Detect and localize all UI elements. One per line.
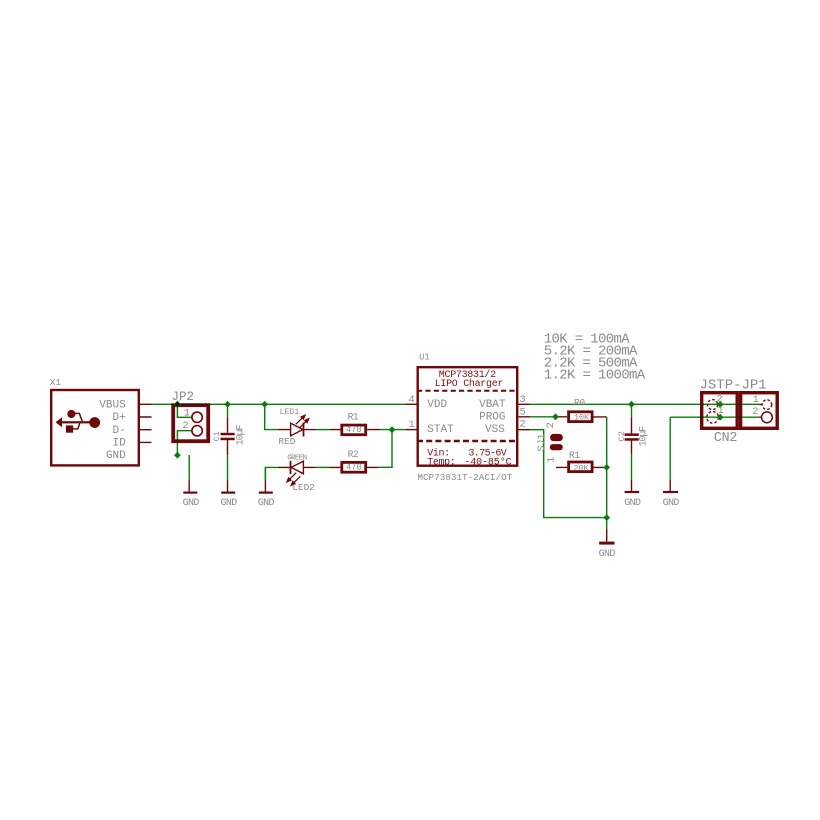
svg-text:PROG: PROG bbox=[479, 412, 505, 424]
svg-text:1: 1 bbox=[184, 407, 190, 419]
CN2 left pin number 2 bbox=[717, 394, 723, 406]
LED2 symbol bbox=[287, 461, 304, 486]
resistor R1 box bbox=[342, 425, 366, 435]
wire JP2 pin1 bbox=[177, 404, 191, 417]
junction C1 bbox=[224, 401, 231, 408]
value 10uF C1 rotated bbox=[235, 424, 246, 445]
label R0 bbox=[574, 398, 585, 409]
svg-text:4: 4 bbox=[409, 394, 415, 406]
svg-text:Temp:: Temp: bbox=[427, 457, 455, 468]
ground bar A bbox=[183, 492, 197, 494]
pins C2 bbox=[631, 417, 633, 491]
label LED1 bbox=[280, 408, 300, 417]
svg-text:3: 3 bbox=[520, 394, 526, 406]
svg-text:1: 1 bbox=[545, 457, 557, 463]
header JP2 box bbox=[173, 405, 208, 441]
label GND BAT- bbox=[663, 498, 680, 509]
svg-text:R1: R1 bbox=[569, 450, 580, 461]
SJ1 pin number 2 rotated bbox=[545, 422, 557, 428]
pin U1 VDD bbox=[405, 403, 417, 405]
JP2 pin circle 1 bbox=[192, 412, 202, 422]
svg-text:LED2: LED2 bbox=[292, 482, 315, 493]
usb symbol bbox=[56, 410, 101, 433]
svg-text:VDD: VDD bbox=[427, 399, 447, 411]
svg-text:RED: RED bbox=[279, 436, 296, 447]
svg-text:GND: GND bbox=[183, 498, 200, 509]
resistor R2 box bbox=[342, 462, 366, 472]
label RED bbox=[279, 436, 296, 447]
svg-text:1: 1 bbox=[409, 419, 415, 431]
label C1 rotated bbox=[212, 431, 222, 441]
ground bar C bbox=[259, 492, 273, 494]
svg-text:2: 2 bbox=[752, 406, 758, 418]
pins R0 bbox=[556, 416, 607, 418]
pin number 1 STAT bbox=[409, 419, 415, 431]
CN2 left pin number 1 bbox=[718, 405, 724, 417]
wire VSS run to GND node bbox=[530, 430, 607, 518]
junction CN2 top bbox=[717, 401, 724, 408]
pins R1 bbox=[330, 429, 380, 431]
capacitor C1 plates bbox=[221, 433, 235, 440]
pins R1 prog bbox=[556, 466, 607, 468]
CN2 pad circle right bottom bbox=[762, 412, 773, 423]
value 10uF C2 rotated bbox=[638, 426, 649, 447]
pins X1 bbox=[140, 404, 152, 442]
svg-text:470: 470 bbox=[346, 425, 362, 435]
svg-text:R2: R2 bbox=[348, 449, 359, 460]
svg-text:LIPO Charger: LIPO Charger bbox=[435, 378, 504, 390]
label GND C bbox=[258, 498, 275, 509]
pin name D+ bbox=[113, 412, 126, 424]
CN2 right pin number 1 bbox=[753, 394, 759, 406]
connector CN2 right box bbox=[741, 393, 778, 429]
capacitor C2 plates bbox=[625, 433, 639, 440]
wire LED2 left to GND bbox=[265, 467, 278, 480]
SJ1 pin number 1 rotated bbox=[545, 457, 557, 463]
pins U1 right side bbox=[519, 404, 531, 429]
text Temp: bbox=[427, 457, 455, 468]
pin name VSS bbox=[485, 424, 505, 436]
svg-text:JSTP-JP1: JSTP-JP1 bbox=[700, 378, 767, 394]
value MCP73831/2 bbox=[439, 369, 496, 381]
svg-text:R0: R0 bbox=[574, 398, 585, 409]
wire overlap dark JP2 top bbox=[171, 404, 210, 443]
svg-text:GND: GND bbox=[599, 549, 616, 560]
pin name PROG bbox=[479, 412, 505, 424]
junction R1 node bbox=[603, 464, 610, 471]
JP2 pin number 1 bbox=[184, 407, 190, 419]
pin number 2 VSS bbox=[520, 419, 526, 431]
pins CN2 right box bbox=[759, 404, 762, 417]
svg-text:CN2: CN2 bbox=[714, 431, 738, 446]
pin GND BAT- bbox=[669, 480, 671, 491]
CN2 pad circle left top bbox=[708, 400, 718, 410]
svg-text:1: 1 bbox=[753, 394, 759, 406]
JP2 pin number 2 bbox=[182, 420, 188, 432]
label GND C2 bbox=[624, 498, 641, 509]
wire R0 right down to R1 node bbox=[606, 417, 608, 468]
label LED2 bbox=[292, 482, 315, 493]
JP2 pin circle 2 bbox=[192, 426, 202, 436]
label U1 bbox=[419, 352, 430, 362]
svg-text:470: 470 bbox=[346, 463, 362, 473]
svg-text:2: 2 bbox=[520, 419, 526, 431]
pin U1 STAT bbox=[406, 429, 417, 431]
svg-text:10K: 10K bbox=[574, 412, 590, 422]
table line 10K bbox=[544, 332, 631, 348]
pins R2 bbox=[329, 466, 379, 468]
svg-text:ID: ID bbox=[113, 438, 127, 450]
wire C1 top bbox=[227, 404, 229, 417]
ground bar B bbox=[221, 492, 235, 494]
junction STAT node bbox=[389, 426, 396, 433]
label SJ1 rotated bbox=[537, 433, 548, 451]
svg-text:GND: GND bbox=[258, 498, 275, 509]
label X1 bbox=[50, 377, 62, 388]
svg-text:2: 2 bbox=[182, 420, 188, 432]
table line 2.2K bbox=[544, 355, 638, 371]
text Vin: bbox=[427, 447, 449, 459]
wire BAT- down to GND bbox=[669, 417, 671, 480]
svg-text:20K: 20K bbox=[574, 464, 590, 474]
pin name D- bbox=[113, 425, 126, 437]
svg-text:10µF: 10µF bbox=[638, 426, 649, 447]
wire R1 node down to GND node bbox=[606, 467, 608, 517]
svg-text:C2: C2 bbox=[617, 431, 627, 441]
svg-text:VBAT: VBAT bbox=[479, 399, 506, 411]
label R1 prog bbox=[569, 450, 580, 461]
solder jumper SJ1 pads bbox=[550, 434, 563, 450]
svg-text:C1: C1 bbox=[212, 431, 222, 441]
pin name STAT bbox=[427, 424, 454, 436]
label GND A bbox=[183, 498, 200, 509]
pin GND A bbox=[188, 481, 190, 492]
connector X1 box bbox=[51, 390, 139, 465]
pin name VBUS bbox=[99, 400, 126, 412]
svg-text:R1: R1 bbox=[348, 411, 359, 422]
value 10K R0 bbox=[574, 412, 590, 422]
wire C2 top bbox=[631, 404, 633, 417]
label JSTP-JP1 bbox=[700, 378, 767, 394]
wire C1 bottom to GND bbox=[227, 455, 229, 480]
pin name VBAT bbox=[479, 399, 506, 411]
ground bar BAT- bbox=[663, 491, 678, 493]
resistor R0 box bbox=[569, 412, 593, 422]
label CN2 bbox=[714, 431, 738, 446]
svg-text:STAT: STAT bbox=[427, 424, 454, 436]
pin GND mid bbox=[606, 530, 608, 542]
table line 1.2K bbox=[544, 367, 646, 383]
junction CN2 bottom bbox=[717, 414, 724, 421]
svg-text:GREEN: GREEN bbox=[287, 455, 306, 463]
wire C2 bottom to GND bbox=[631, 454, 633, 480]
pin number 4 bbox=[409, 394, 415, 406]
svg-text:2: 2 bbox=[717, 394, 723, 406]
wire BAT- to CN2 bbox=[670, 416, 759, 418]
svg-text:VBUS: VBUS bbox=[99, 400, 126, 412]
svg-text:D+: D+ bbox=[113, 412, 126, 424]
svg-text:1.2K = 1000mA: 1.2K = 1000mA bbox=[544, 367, 646, 383]
wire GND node to GND symbol bbox=[606, 518, 608, 530]
svg-text:GND: GND bbox=[624, 498, 641, 509]
value 20K bbox=[574, 464, 590, 474]
svg-text:5: 5 bbox=[520, 406, 526, 418]
svg-text:D-: D- bbox=[113, 425, 126, 437]
connector CN2 left box bbox=[702, 393, 738, 429]
junction LED branch bbox=[261, 401, 268, 408]
value LIPO Charger bbox=[435, 378, 504, 390]
junction JP2 wire end bbox=[174, 452, 181, 459]
svg-text:VSS: VSS bbox=[485, 424, 505, 436]
table line 5.2K bbox=[544, 344, 638, 360]
value 470 R2 bbox=[346, 463, 362, 473]
ground bar C2 bbox=[625, 491, 640, 493]
wire VBUS rail X1 to U1 VDD bbox=[152, 403, 406, 405]
svg-text:U1: U1 bbox=[419, 352, 430, 362]
svg-text:2: 2 bbox=[545, 422, 557, 428]
pin number 3 bbox=[520, 394, 526, 406]
CN2 pad circle left bottom bbox=[707, 412, 719, 424]
svg-text:X1: X1 bbox=[50, 377, 62, 388]
svg-text:SJ1: SJ1 bbox=[537, 433, 548, 451]
label C2 rotated bbox=[617, 431, 627, 441]
wire LED1 to R1 bbox=[316, 429, 331, 431]
value 470 R1 bbox=[346, 425, 362, 435]
svg-text:JP2: JP2 bbox=[172, 390, 195, 404]
U1 dashed separator bottom bbox=[417, 440, 518, 443]
pin name VDD bbox=[427, 399, 447, 411]
label R1 bbox=[348, 411, 359, 422]
svg-text:GND: GND bbox=[663, 498, 680, 509]
svg-text:LED1: LED1 bbox=[280, 408, 300, 417]
wire R1 to U1 STAT bbox=[380, 429, 406, 431]
pin name GND X1 bbox=[106, 450, 126, 462]
LED1 symbol bbox=[291, 415, 309, 437]
wire GND stub below JP2 bbox=[188, 455, 190, 481]
junction PROG node bbox=[552, 413, 559, 420]
ground bar mid bbox=[599, 542, 614, 545]
svg-text:GND: GND bbox=[221, 498, 238, 509]
svg-text:1: 1 bbox=[718, 405, 724, 417]
CN2 pad circle right top bbox=[762, 400, 772, 410]
resistor R1 prog box bbox=[569, 462, 593, 472]
CN2 right pin number 2 bbox=[752, 406, 758, 418]
wire overlap dark CN2 walls bbox=[700, 404, 741, 417]
label GREEN bbox=[287, 455, 306, 463]
wire JP2 pin2 to stub end bbox=[177, 431, 191, 456]
svg-text:10µF: 10µF bbox=[235, 424, 246, 445]
label JP2 bbox=[172, 390, 195, 404]
text -40-85C bbox=[464, 456, 511, 468]
pins C1 bbox=[227, 417, 229, 491]
junction GND node bbox=[603, 514, 610, 521]
junction C2 bbox=[628, 401, 635, 408]
wire LED1 branch from rail bbox=[265, 404, 278, 429]
label R2 bbox=[348, 449, 359, 460]
pins LED2 bbox=[278, 466, 316, 468]
IC U1 box bbox=[418, 367, 518, 466]
label GND B bbox=[221, 498, 238, 509]
text 3.75-6V bbox=[468, 448, 506, 459]
label GND mid bbox=[599, 549, 616, 560]
wire STAT node down to R2 bbox=[379, 430, 392, 468]
pin GND C bbox=[264, 467, 266, 491]
pin name ID bbox=[113, 438, 127, 450]
U1 dashed separator top bbox=[417, 390, 518, 392]
wire PROG to R0 bbox=[530, 416, 556, 418]
wire LED2 to R2 bbox=[316, 466, 330, 468]
pin number 5 bbox=[520, 406, 526, 418]
junction JP2 top dark bbox=[174, 401, 181, 408]
wire VBAT rail U1 to CN2 bbox=[530, 403, 759, 405]
svg-text:GND: GND bbox=[106, 450, 126, 462]
text MCP73831T-2ACI/OT bbox=[417, 472, 512, 483]
pins LED1 bbox=[278, 429, 316, 431]
svg-text:-40-85°C: -40-85°C bbox=[464, 456, 511, 468]
svg-text:MCP73831T-2ACI/OT: MCP73831T-2ACI/OT bbox=[417, 472, 512, 483]
